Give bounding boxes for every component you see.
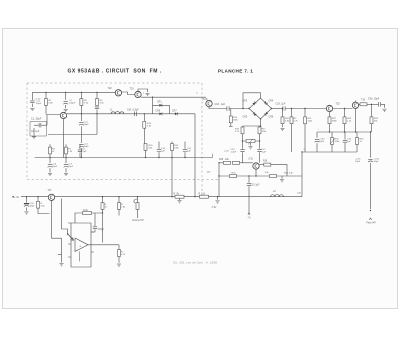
svg-text:.1μF: .1μF — [82, 151, 87, 153]
svg-text:B+ 9v: B+ 9v — [13, 196, 20, 199]
svg-text:10μF: 10μF — [52, 166, 58, 168]
svg-text:R .5k: R .5k — [174, 193, 180, 195]
svg-text:12Ω: 12Ω — [297, 193, 301, 195]
svg-text:CR6: CR6 — [156, 110, 161, 112]
svg-text:R19: R19 — [263, 161, 268, 163]
svg-text:1μF: 1μF — [161, 151, 165, 153]
svg-text:GX 953A&B . CIRCUIT SON FM .: GX 953A&B . CIRCUIT SON FM . — [68, 69, 162, 75]
svg-text:T22: T22 — [108, 87, 113, 90]
svg-text:C19, 1μF: C19, 1μF — [276, 103, 286, 106]
svg-text:C18, .1μF: C18, .1μF — [215, 103, 226, 106]
svg-text:100μF: 100μF — [69, 103, 76, 105]
svg-text:T25: T25 — [336, 103, 341, 106]
svg-text:T27: T27 — [48, 189, 53, 192]
svg-text:Prise HP: Prise HP — [366, 222, 376, 225]
svg-text:(T2): (T2) — [249, 159, 253, 161]
svg-text:.1μF: .1μF — [262, 152, 267, 154]
svg-text:1μF: 1μF — [207, 172, 211, 174]
svg-text:1μF: 1μF — [347, 141, 351, 143]
svg-text:470pF: 470pF — [98, 229, 105, 231]
svg-text:R 1.2k: R 1.2k — [199, 193, 207, 195]
svg-text:R18 . 10k: R18 . 10k — [219, 159, 230, 161]
svg-text:CM, 3.3μF: CM, 3.3μF — [127, 109, 139, 112]
svg-text:T26: T26 — [361, 99, 366, 102]
svg-text:C40, 10μF: C40, 10μF — [368, 98, 380, 101]
svg-text:PLANCHE 7. 1: PLANCHE 7. 1 — [218, 69, 253, 74]
svg-text:.47μF: .47μF — [231, 152, 237, 154]
svg-text:(T24): (T24) — [202, 98, 208, 101]
svg-text:C2 .1μF: C2 .1μF — [31, 131, 40, 133]
svg-text:40μF: 40μF — [84, 124, 90, 126]
svg-text:-7.5v: -7.5v — [211, 206, 217, 209]
svg-text:CR7: CR7 — [172, 110, 177, 112]
svg-text:+C 40: +C 40 — [35, 99, 42, 101]
svg-text:CR6: CR6 — [269, 117, 274, 119]
svg-text:R23 3.3k: R23 3.3k — [284, 173, 294, 175]
svg-text:C1, 25μF: C1, 25μF — [31, 118, 42, 121]
svg-text:1μF: 1μF — [187, 151, 191, 153]
svg-text:C15 1μF: C15 1μF — [251, 185, 260, 187]
svg-text:10μF: 10μF — [374, 161, 380, 163]
svg-text:CR3: CR3 — [243, 101, 248, 103]
svg-text:T23: T23 — [130, 88, 135, 91]
svg-text:10μF: 10μF — [319, 141, 325, 143]
svg-text:Volume HP: Volume HP — [132, 220, 144, 222]
svg-text:ICI, 201, rue de Cart . A. 193: ICI, 201, rue de Cart . A. 1938 — [173, 261, 217, 265]
svg-text:40μF: 40μF — [30, 206, 36, 208]
svg-text:10μF: 10μF — [68, 166, 74, 168]
svg-text:40μF: 40μF — [36, 103, 42, 105]
svg-text:CR4: CR4 — [269, 101, 274, 103]
svg-text:CR5: CR5 — [243, 117, 248, 119]
svg-text:+C15: +C15 — [224, 151, 230, 153]
svg-text:10μF: 10μF — [355, 161, 361, 163]
svg-text:CR1: CR1 — [157, 102, 162, 104]
